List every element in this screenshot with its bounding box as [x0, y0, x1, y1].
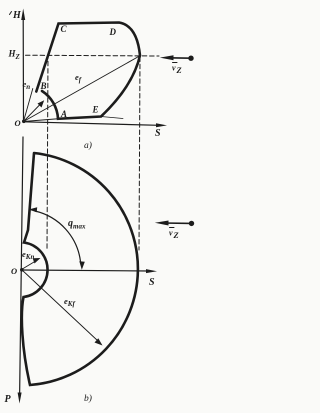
svg-text:S: S	[149, 277, 155, 288]
node O (bottom)	[20, 268, 24, 272]
thin ground line beyond E	[101, 117, 123, 119]
svg-text:O: O	[15, 118, 21, 128]
P axis arrowhead	[18, 393, 22, 404]
svg-text:a): a)	[84, 140, 92, 151]
svg-text:b): b)	[84, 393, 92, 404]
radial arrow at 40 deg from O	[24, 105, 41, 122]
v_Z label (bottom)	[170, 227, 175, 229]
svg-text:A: A	[60, 109, 67, 119]
P axis	[20, 137, 23, 396]
q_max arc arrowhead upper	[29, 207, 38, 212]
radial e_f line O-R	[24, 56, 140, 122]
H_Z dashed level line	[26, 54, 160, 57]
svg-text:v: v	[172, 64, 176, 73]
svg-text:S: S	[155, 128, 161, 139]
S axis arrowhead (bottom)	[146, 269, 157, 273]
H axis	[22, 19, 24, 122]
e_Kf radius line	[22, 270, 99, 342]
dashed vertical through R	[139, 57, 140, 250]
e_Kn radius arrow	[22, 261, 37, 270]
tick before H	[10, 12, 12, 15]
svg-text:v: v	[169, 229, 173, 238]
H axis arrowhead	[21, 9, 25, 21]
radial e_n line O-B	[24, 89, 33, 122]
working area outline (a): B-C-D-R-E-A arc	[36, 23, 140, 119]
radial line O to A (thin start of bottom edge)	[24, 119, 59, 122]
svg-text:H: H	[12, 10, 22, 21]
svg-text:Z: Z	[173, 230, 179, 240]
S axis (bottom)	[22, 270, 150, 271]
svg-text:C: C	[61, 24, 68, 34]
q_max arc	[35, 211, 81, 262]
v_Z vector (bottom)	[163, 222, 192, 224]
v_Z vector (top)	[168, 57, 191, 59]
dashed vertical through B crossing	[47, 54, 48, 251]
svg-text:Z: Z	[176, 65, 182, 75]
v_Z label (top)	[173, 62, 178, 64]
q_max arc arrowhead lower	[79, 261, 85, 270]
S axis (top)	[24, 122, 160, 126]
S axis arrowhead (top)	[156, 123, 167, 127]
svg-text:O: O	[11, 266, 17, 276]
svg-text:D: D	[109, 27, 117, 37]
svg-text:E: E	[92, 105, 99, 115]
node O (top)	[22, 120, 26, 124]
svg-text:B: B	[40, 81, 47, 91]
svg-text:P: P	[5, 394, 12, 405]
working area outline (b): sector with small semicircle notch	[22, 153, 138, 385]
